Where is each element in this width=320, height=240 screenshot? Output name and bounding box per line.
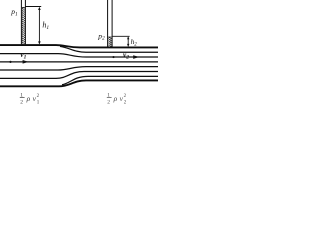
tube 1 liquid column (hatched) xyxy=(22,7,25,44)
piezometer tube 2 left wall xyxy=(107,0,109,47)
v1 start dot xyxy=(9,61,11,63)
streamline lower throat (new) xyxy=(62,76,158,84)
h2 reference tick xyxy=(112,35,130,37)
streamline upper throat (new) xyxy=(60,46,158,52)
tube 2 liquid column (hatched) xyxy=(108,37,112,47)
piezometer tube 1 right wall xyxy=(24,0,26,44)
formula half rho v2 squared xyxy=(107,93,127,106)
svg-text:ρ: ρ xyxy=(26,94,31,103)
streamline 2 middle (straight) xyxy=(0,61,158,63)
v2 arrowhead xyxy=(133,55,139,59)
tube 2 liquid surface xyxy=(108,36,112,38)
tube 1 liquid surface xyxy=(22,6,25,8)
svg-text:2: 2 xyxy=(107,99,110,105)
svg-text:ρ: ρ xyxy=(113,94,118,103)
streamline 4 left to streamline 5 right xyxy=(0,71,158,78)
pipe bottom wall xyxy=(0,80,158,86)
piezometer tube 1 left wall xyxy=(20,0,22,44)
h1 dimension arrow xyxy=(38,8,40,43)
h1 reference tick xyxy=(25,6,41,8)
svg-text:2: 2 xyxy=(20,99,23,105)
pipe top wall xyxy=(0,45,158,47)
streamline 1 left to streamline 2 right xyxy=(0,54,158,57)
formula half rho v1 squared xyxy=(20,93,40,106)
v2 start dot xyxy=(112,56,114,58)
streamline 3 left to streamline 4 right xyxy=(0,67,158,70)
h2 dimension arrow xyxy=(127,37,129,46)
piezometer tube 2 right wall xyxy=(111,0,113,47)
v1 arrowhead xyxy=(23,60,29,64)
